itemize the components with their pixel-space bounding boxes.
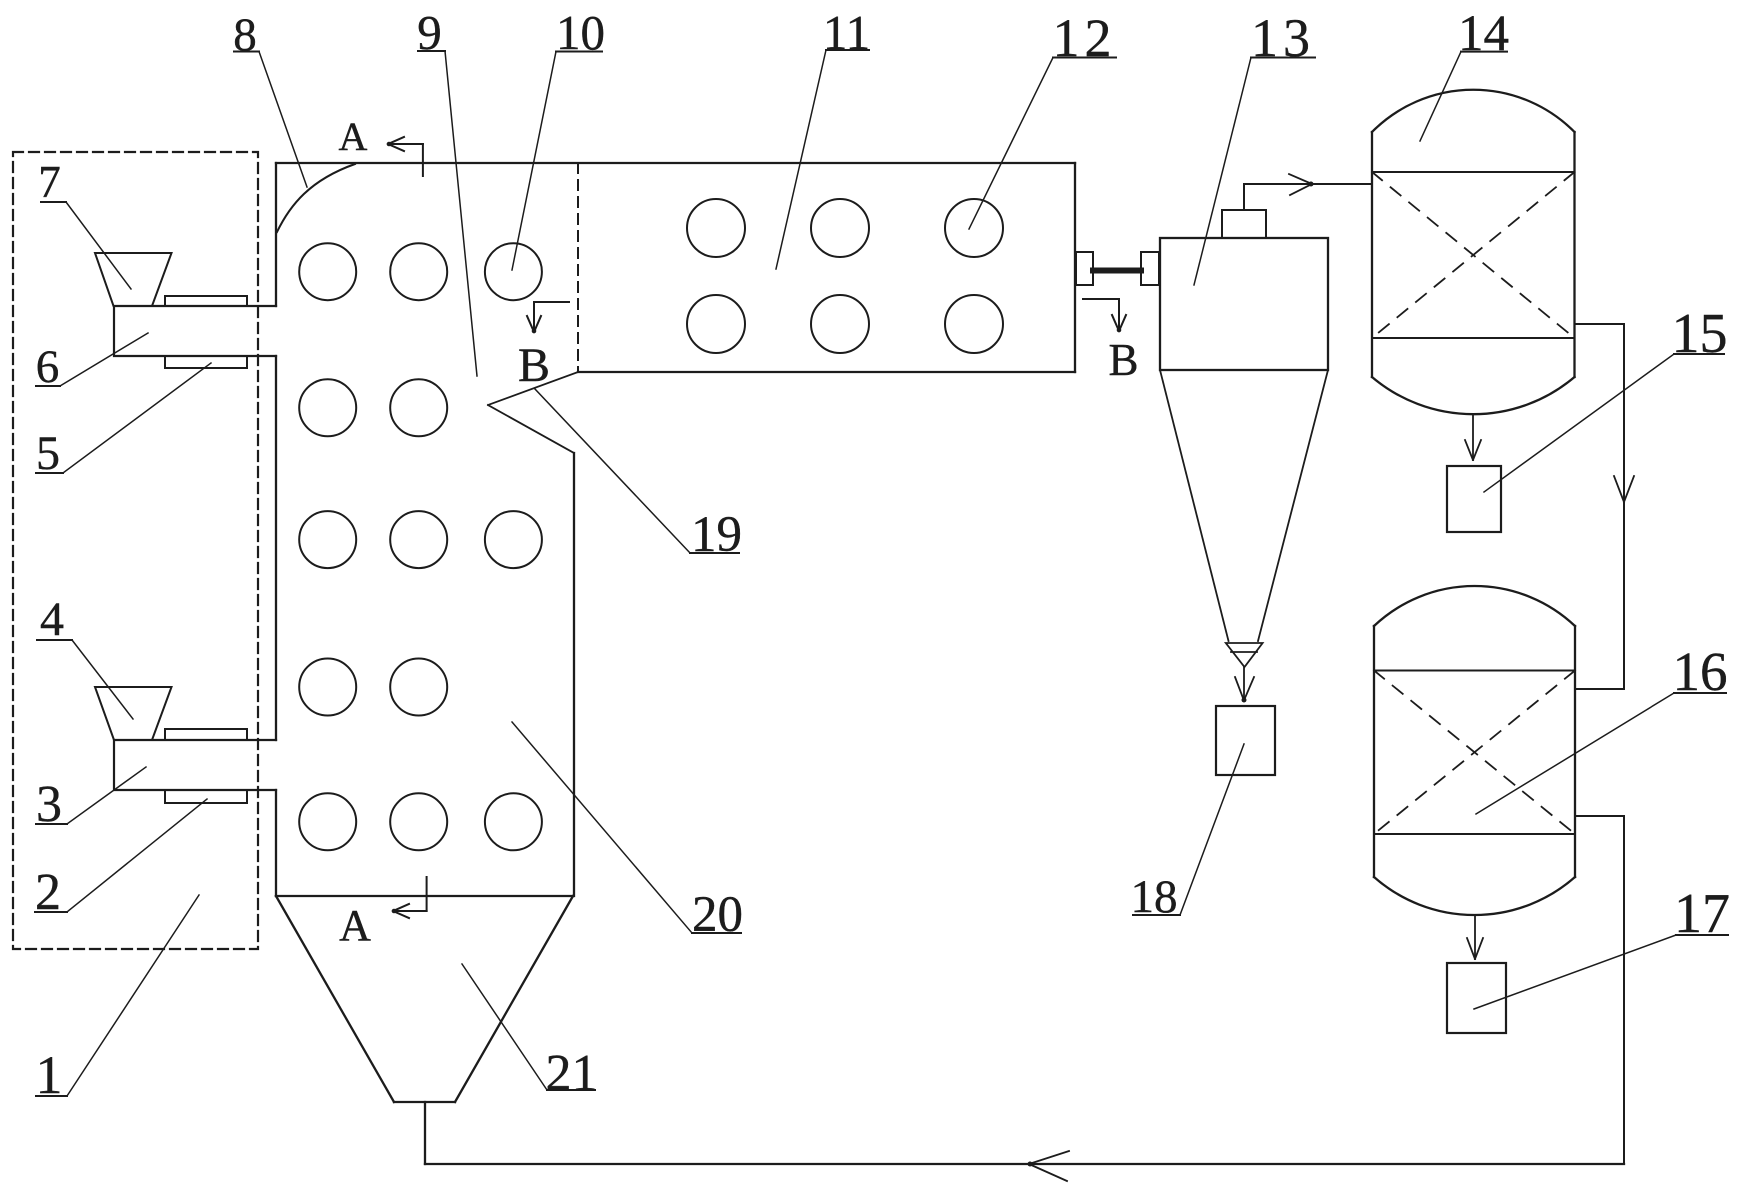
leader 15 [1484, 354, 1674, 492]
leader 2 [67, 799, 207, 912]
leader 17 [1474, 935, 1676, 1009]
svg-text:B: B [1108, 335, 1138, 385]
reactor 16 packing top line [1374, 670, 1575, 672]
leader 19 [535, 389, 690, 553]
return line arrow [1029, 1151, 1069, 1181]
svg-text:9: 9 [417, 5, 442, 60]
leader 16 [1476, 693, 1674, 814]
svg-text:8: 8 [233, 9, 257, 61]
bottom feeder upper flange [165, 729, 247, 740]
furnace right wall lower segment [573, 453, 575, 896]
cyclone inlet fitting [1141, 252, 1159, 285]
svg-text:1: 1 [36, 1045, 63, 1105]
leader 6 [60, 333, 148, 386]
leader 11 [776, 50, 826, 269]
svg-text:5: 5 [36, 427, 60, 480]
cyclone top nozzle [1222, 210, 1266, 238]
dashed enclosure box item 1 [13, 152, 258, 949]
duct circles row A [687, 199, 745, 257]
svg-text:6: 6 [36, 341, 60, 393]
reactor 14 X cross dashed [1372, 172, 1575, 338]
svg-text:17: 17 [1674, 883, 1730, 945]
reactor 14 top dome [1372, 90, 1575, 132]
outlet notch item 19 upper edge [488, 372, 578, 405]
corner deflector vane item 8 [277, 164, 355, 232]
furnace tube circles row1 [299, 199, 1003, 850]
section marker A top [388, 137, 423, 176]
section marker B left [527, 302, 569, 332]
section marker B right [1083, 299, 1126, 331]
duct outlet stub rect [1076, 252, 1093, 285]
svg-text:11: 11 [823, 5, 870, 60]
reactor 16 packing bottom line [1374, 833, 1575, 835]
reactor 16 X cross dashed [1374, 671, 1575, 835]
outlet notch item 19 lower edge [488, 405, 574, 453]
svg-text:18: 18 [1131, 871, 1178, 923]
hopper cone right [455, 896, 573, 1102]
svg-text:B: B [518, 339, 550, 392]
leader 18 [1180, 744, 1244, 915]
hopper cone flat bottom [394, 1101, 455, 1103]
reactor 16 bottom dome [1374, 877, 1575, 915]
leader 3 [67, 767, 146, 824]
svg-text:2: 2 [35, 864, 61, 921]
reactor 14 packing top line [1372, 171, 1575, 173]
hopper cone left [276, 896, 394, 1102]
duct bottom line [578, 371, 1075, 373]
arrow reactor 16 to box 17 [1467, 915, 1483, 959]
furnace tube circles row2 [299, 379, 356, 436]
reactor 14 left wall [1371, 132, 1373, 377]
top feeder lower flange item 5 [165, 356, 247, 368]
cyclone body item 13 [1160, 238, 1328, 370]
cyclone cone right [1258, 370, 1328, 641]
furnace tube circles row3 [299, 511, 356, 568]
svg-text:12: 12 [1053, 8, 1117, 68]
reactor 16 right wall [1574, 626, 1576, 877]
return line bottom [425, 1163, 1624, 1165]
top feeder funnel item 7 [95, 253, 172, 306]
top feeder tube item 6 [114, 306, 276, 356]
leader 12 [969, 58, 1053, 230]
hopper outlet pipe [424, 1102, 426, 1164]
section marker A bottom [393, 877, 427, 918]
bottom feeder lower flange item 2 [165, 790, 247, 803]
furnace left wall lower segment [275, 790, 277, 896]
reactor 14 right wall [1573, 132, 1575, 377]
reactor 14 packing bottom line [1372, 337, 1575, 339]
leader 10 [512, 52, 556, 271]
svg-text:7: 7 [38, 157, 61, 207]
svg-text:A: A [339, 901, 371, 950]
duct right wall [1074, 163, 1076, 372]
arrow cyclone to box 18 [1235, 667, 1254, 700]
svg-text:21: 21 [546, 1045, 598, 1102]
top feeder upper flange [165, 296, 247, 306]
connecting pipe duct to cyclone [1093, 268, 1141, 274]
duct circles row B [687, 295, 745, 353]
leader 4 [72, 640, 133, 719]
reactor 16 left wall [1373, 626, 1375, 877]
svg-text:14: 14 [1458, 6, 1509, 62]
furnace bottom line [276, 895, 573, 897]
reactor 14 outlet pipe down to reactor 16 [1575, 324, 1625, 689]
furnace left wall middle segment [275, 356, 277, 740]
furnace tube circles row4 [299, 659, 356, 716]
leader 14 [1420, 52, 1461, 141]
cyclone cone left [1160, 370, 1229, 641]
furnace left wall upper segment [275, 163, 277, 306]
svg-text:15: 15 [1672, 303, 1728, 365]
box item 17 [1447, 963, 1506, 1033]
box item 15 [1447, 466, 1501, 532]
leader 21 [462, 964, 547, 1090]
cyclone gas pipe to reactor 14 [1244, 184, 1372, 210]
collection box item 18 [1216, 706, 1275, 775]
svg-text:10: 10 [556, 5, 605, 60]
svg-text:A: A [339, 114, 368, 159]
reactor 16 outlet pipe to return line [1575, 816, 1624, 1164]
furnace top line [276, 162, 1075, 164]
svg-text:19: 19 [691, 507, 742, 563]
svg-text:16: 16 [1673, 641, 1728, 702]
svg-text:13: 13 [1251, 8, 1315, 68]
downpipe arrow [1614, 476, 1634, 502]
svg-text:4: 4 [40, 593, 64, 646]
bottom feeder tube item 3 [114, 740, 276, 790]
gas pipe arrow [1289, 174, 1312, 195]
bottom feeder funnel item 4 [95, 687, 172, 740]
furnace tube circles row5 [299, 793, 356, 850]
svg-text:20: 20 [692, 887, 743, 943]
leader 5 [63, 363, 211, 473]
cyclone tip funnel [1226, 643, 1263, 667]
reactor 14 bottom dome [1372, 377, 1575, 414]
leader 13 [1194, 58, 1251, 286]
reactor 16 top dome [1374, 586, 1575, 626]
leader 7 [66, 202, 131, 289]
arrow reactor 14 to box 15 [1465, 414, 1481, 460]
svg-text:3: 3 [36, 776, 62, 833]
leader 9 [445, 51, 477, 376]
leader 8 [259, 52, 307, 188]
leader 1 [67, 895, 199, 1096]
section divider dashed line [577, 163, 579, 371]
leader 20 [512, 722, 692, 933]
